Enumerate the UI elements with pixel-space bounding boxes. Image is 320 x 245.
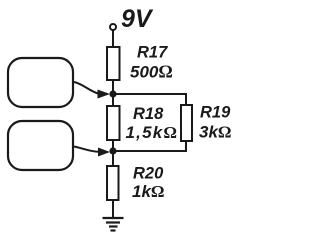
svg-text:1,5kΩ: 1,5kΩ	[126, 123, 179, 142]
svg-text:9V: 9V	[121, 5, 154, 33]
svg-text:R18: R18	[133, 105, 164, 123]
svg-text:R17: R17	[137, 44, 168, 62]
svg-text:1kΩ: 1kΩ	[132, 182, 165, 201]
svg-text:500Ω: 500Ω	[130, 62, 173, 82]
svg-text:R20: R20	[133, 165, 164, 183]
svg-text:3kΩ: 3kΩ	[199, 123, 232, 142]
svg-text:R19: R19	[200, 104, 231, 122]
